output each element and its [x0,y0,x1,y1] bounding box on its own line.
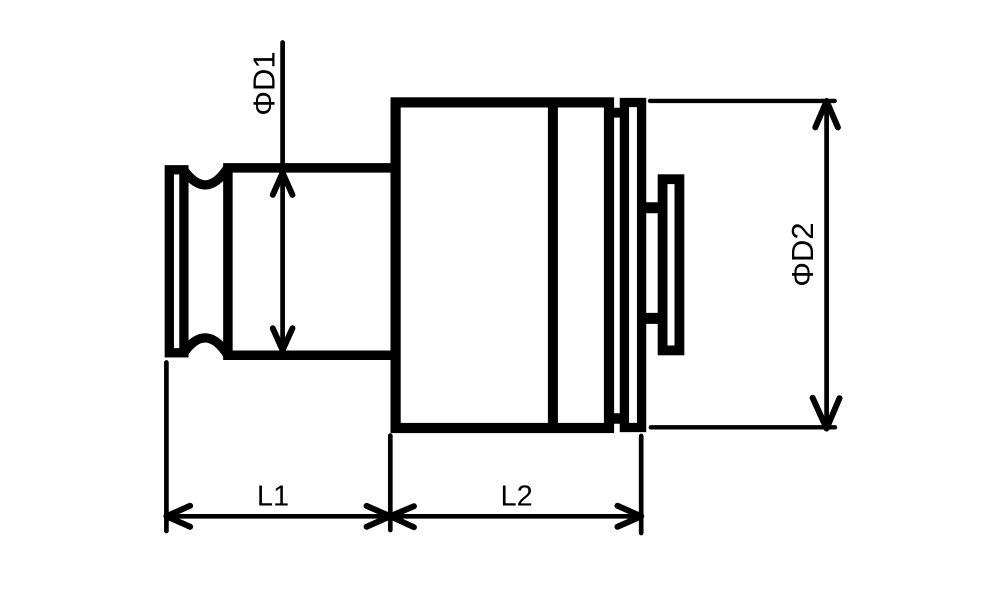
body internal line [548,100,558,430]
svg-text:ΦD2: ΦD2 [785,222,820,286]
dimension line D2 [824,101,829,427]
body rectangle [396,102,609,428]
nub bottom crossbar [641,313,663,324]
arrowhead D1 top [273,173,293,195]
arrowhead D2 bottom [813,398,840,429]
cylinder D1 outline [228,168,398,355]
arrowhead L2 left [390,506,414,527]
dimension line D1 [280,43,285,351]
ring flange [624,103,641,428]
extension line D2 top [650,99,835,103]
svg-text:L2: L2 [500,481,532,513]
arrowhead D1 bottom [273,328,293,350]
nub top crossbar [641,202,663,213]
neck bottom edge [607,413,626,423]
extension line L mid [388,436,393,530]
dimension line L1 L2 [166,514,641,519]
svg-text:L1: L1 [257,481,289,513]
groove top arc [184,168,228,185]
neck top edge [607,108,626,118]
extension line L1 left [164,363,169,532]
arrowhead L1 right [367,506,391,527]
arrowhead L1 left [166,506,190,527]
extension line D2 bottom [651,425,835,429]
arrowhead D2 top [815,101,838,127]
groove bottom arc [184,338,228,355]
shank end cap [169,170,184,353]
arrowhead L2 right [618,506,642,527]
drive nub rectangle [663,179,680,350]
svg-text:ΦD1: ΦD1 [247,51,282,115]
extension line L right [639,436,644,533]
